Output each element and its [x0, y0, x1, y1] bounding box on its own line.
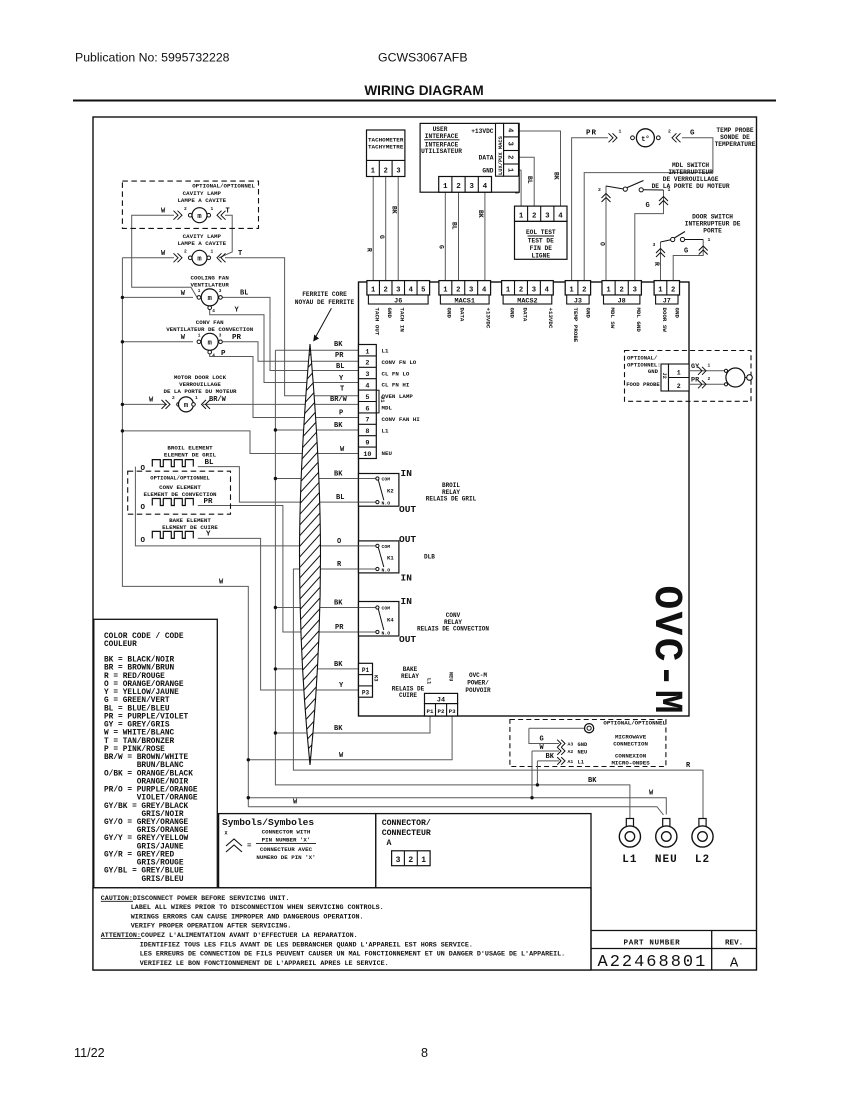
svg-text:BR/W: BR/W [209, 396, 227, 404]
relay K2 broil [359, 474, 399, 507]
svg-text:2: 2 [384, 168, 388, 176]
svg-text:4: 4 [558, 212, 563, 220]
svg-text:A3: A3 [568, 742, 574, 748]
svg-text:J7: J7 [663, 298, 671, 306]
svg-text:O = ORANGE/ORANGE: O = ORANGE/ORANGE [104, 681, 184, 689]
wire BK bus vertical [275, 350, 630, 818]
J1 bracket label [376, 390, 386, 413]
svg-text:DLB: DLB [424, 554, 435, 561]
wire broil element BL to relay K2 [198, 467, 376, 503]
svg-text:m: m [184, 402, 188, 410]
svg-text:K1: K1 [387, 554, 394, 561]
wire lamp1 T side to lamp2 [219, 215, 232, 258]
user interface bottom pins [439, 177, 492, 193]
svg-text:X: X [225, 831, 228, 837]
svg-text:1: 1 [708, 362, 711, 368]
svg-text:DATA: DATA [459, 308, 466, 322]
cooling fan motor [181, 289, 223, 314]
svg-text:3: 3 [505, 142, 513, 146]
wire W motor-door-lock tap [122, 403, 167, 405]
wire BK to K3 P1 [275, 668, 358, 670]
svg-text:L1: L1 [382, 348, 389, 355]
svg-text:GND: GND [482, 167, 493, 174]
svg-text:GY/O = GREY/ORANGE: GY/O = GREY/ORANGE [104, 819, 189, 827]
svg-text:3: 3 [469, 286, 473, 294]
svg-text:3: 3 [365, 371, 369, 379]
svg-text:G: G [540, 736, 544, 744]
svg-text:N.O: N.O [382, 568, 391, 574]
svg-text:P: P [339, 410, 343, 418]
svg-text:5: 5 [365, 394, 369, 402]
wire BK from J4 P1 [275, 716, 430, 733]
svg-text:MDL GND: MDL GND [635, 308, 642, 333]
svg-text:INTERRUPTEUR DE: INTERRUPTEUR DE [685, 221, 741, 228]
svg-text:P1: P1 [427, 708, 434, 715]
svg-text:DOOR SW: DOOR SW [661, 308, 668, 333]
wire BK to pin 8 [275, 429, 358, 431]
svg-text:3: 3 [396, 286, 400, 294]
svg-text:A2: A2 [568, 749, 574, 755]
svg-text:2: 2 [384, 286, 388, 294]
svg-text:GCWS3067AFB: GCWS3067AFB [378, 51, 468, 65]
cavity lamp 1 optional [161, 206, 226, 223]
svg-text:m: m [197, 213, 201, 221]
door switch label [685, 214, 741, 235]
svg-text:GND: GND [648, 368, 659, 375]
svg-text:CONV ELEMENT: CONV ELEMENT [159, 484, 201, 491]
svg-text:BK: BK [588, 777, 597, 785]
svg-text:ELEMENT DE GRIL: ELEMENT DE GRIL [164, 452, 217, 459]
svg-text:CAVITY LAMP: CAVITY LAMP [183, 190, 222, 197]
wire O bus for elements [135, 467, 376, 546]
svg-text:RELAY: RELAY [401, 673, 419, 680]
svg-text:1: 1 [506, 286, 511, 294]
symbols legend text [256, 829, 316, 862]
svg-text:BL: BL [526, 176, 533, 184]
svg-text:VENTILATEUR DE CONVECTION: VENTILATEUR DE CONVECTION [166, 326, 253, 333]
svg-text:1: 1 [371, 286, 376, 294]
svg-text:PR: PR [335, 352, 344, 360]
svg-text:P: P [221, 350, 226, 358]
svg-text:BL = BLUE/BLEU: BL = BLUE/BLEU [104, 705, 170, 713]
svg-text:4: 4 [365, 383, 369, 391]
wire W second run to NEU [248, 807, 663, 815]
svg-text:1: 1 [708, 237, 711, 243]
wire R from K1 N.O to L2 terminal [293, 569, 703, 819]
svg-text:2: 2 [708, 376, 711, 382]
svg-text:A22468801: A22468801 [598, 953, 708, 972]
MDL switch [598, 181, 671, 206]
svg-text:J3: J3 [574, 298, 582, 306]
svg-text:GY/BL = GREY/BLUE: GY/BL = GREY/BLUE [104, 868, 184, 876]
svg-text:K2: K2 [387, 487, 394, 494]
svg-text:COM: COM [382, 544, 391, 550]
color code title [104, 633, 184, 649]
svg-text:P3: P3 [362, 689, 370, 696]
svg-text:L1: L1 [622, 854, 637, 866]
connector A title [382, 818, 431, 848]
svg-text:O: O [141, 504, 146, 512]
cooling fan labels [191, 275, 230, 289]
OVC-M control board outline [359, 282, 690, 716]
svg-text:ELEMENT DE CONVECTION: ELEMENT DE CONVECTION [143, 491, 217, 498]
wire temp probe PR from J3 pin1 [572, 138, 608, 281]
svg-text:FERRITE CORE: FERRITE CORE [302, 291, 347, 298]
part number block [591, 888, 757, 972]
svg-text:O: O [599, 242, 606, 246]
svg-text:BK: BK [334, 422, 343, 430]
connector J1 pin column 1-10 [359, 345, 377, 459]
convection fan motor [181, 333, 223, 358]
microwave ground ring [529, 724, 594, 744]
svg-text:2: 2 [668, 129, 671, 135]
svg-text:POUVOIR: POUVOIR [465, 687, 491, 694]
svg-text:8: 8 [421, 1046, 428, 1060]
svg-text:G = GREEN/VERT: G = GREEN/VERT [104, 697, 170, 705]
svg-text:CONNECTEUR AVEC: CONNECTEUR AVEC [260, 846, 313, 853]
svg-text:SONDE DE: SONDE DE [720, 134, 750, 141]
svg-text:LIGNE: LIGNE [532, 253, 551, 260]
wire W from J4 P3 [248, 716, 452, 760]
svg-text:3: 3 [219, 334, 222, 339]
wire conv fan P to pin 7 [210, 351, 359, 418]
svg-text:BK: BK [334, 471, 343, 479]
svg-text:R: R [653, 262, 660, 266]
svg-text:BK: BK [391, 206, 398, 214]
svg-text:BL: BL [205, 459, 215, 467]
wire W to NEU terminal [248, 798, 666, 815]
wire door switch G return to J7 pin2 [673, 240, 703, 281]
svg-text:2: 2 [172, 395, 175, 401]
svg-text:T: T [226, 207, 230, 215]
svg-text:GRIS/ORANGE: GRIS/ORANGE [137, 827, 189, 835]
svg-text:TACHOMETER: TACHOMETER [368, 137, 404, 144]
connector J2 [626, 364, 689, 391]
wire conv fan PR to pin 2 [222, 342, 359, 361]
wire DATA to EOL pin2 [519, 157, 535, 206]
svg-text:BL: BL [240, 289, 248, 297]
svg-text:NOYAU DE FERRITE: NOYAU DE FERRITE [295, 299, 355, 306]
optional cavity lamp dashed box [122, 181, 258, 228]
svg-text:1: 1 [211, 206, 214, 212]
connector J7 [654, 281, 679, 306]
bake relay label [392, 666, 425, 699]
svg-text:NEU: NEU [578, 749, 588, 755]
svg-text:BL: BL [451, 222, 458, 230]
svg-text:BRUN/BLANC: BRUN/BLANC [137, 762, 184, 770]
svg-text:RELAIS DE GRIL: RELAIS DE GRIL [426, 496, 477, 503]
svg-text:L2: L2 [695, 854, 710, 866]
conv element [139, 499, 194, 513]
svg-text:TEMP PROBE: TEMP PROBE [716, 127, 753, 134]
svg-text:GND: GND [386, 308, 393, 319]
svg-text:A: A [387, 839, 392, 848]
svg-text:1: 1 [569, 286, 574, 294]
svg-text:IN: IN [401, 596, 413, 607]
svg-text:TEMPERATURE: TEMPERATURE [715, 141, 756, 148]
svg-text:G: G [690, 129, 695, 137]
wire tach BK to J6 pin3 [397, 177, 399, 281]
svg-text:6: 6 [365, 405, 369, 413]
svg-text:CUIRE: CUIRE [399, 692, 417, 699]
connector row pin function labels [374, 308, 681, 343]
svg-text:DE VERROUILLAGE: DE VERROUILLAGE [663, 176, 719, 183]
svg-text:CONNEXION: CONNEXION [615, 753, 647, 760]
svg-text:+13VDC: +13VDC [484, 308, 491, 329]
svg-text:CL FN LO: CL FN LO [382, 370, 410, 377]
connector A box [376, 814, 591, 888]
svg-text:OVC-M: OVC-M [469, 672, 487, 679]
svg-text:N.O: N.O [382, 631, 391, 637]
svg-text:WIRING DIAGRAM: WIRING DIAGRAM [364, 83, 483, 98]
svg-text:UTILISATEUR: UTILISATEUR [421, 148, 462, 155]
svg-text:3: 3 [653, 242, 656, 248]
svg-text:PORTE: PORTE [703, 228, 722, 235]
svg-text:EOL TEST: EOL TEST [526, 229, 556, 236]
svg-text:5: 5 [421, 286, 425, 294]
svg-text:G: G [438, 245, 445, 249]
svg-text:10: 10 [363, 451, 371, 459]
svg-text:IN: IN [401, 572, 413, 583]
wire bake element Y to K3 P3 [198, 538, 359, 690]
svg-text:3: 3 [469, 183, 474, 191]
svg-text:W = WHITE/BLANC: W = WHITE/BLANC [104, 730, 175, 738]
svg-text:GY = GREY/GRIS: GY = GREY/GRIS [104, 722, 170, 730]
bake element [139, 531, 194, 544]
svg-text:GND: GND [585, 308, 592, 319]
svg-text:R = RED/ROUGE: R = RED/ROUGE [104, 673, 165, 681]
svg-text:K4: K4 [387, 616, 394, 623]
svg-text:PR: PR [232, 334, 242, 342]
svg-text:NEU: NEU [448, 672, 454, 681]
svg-text:G: G [646, 202, 650, 210]
svg-text:BK: BK [553, 172, 560, 180]
svg-text:FOOD PROBE: FOOD PROBE [626, 381, 660, 388]
wire BK to K4 COM [275, 607, 376, 609]
svg-text:LES ERREURS DE CONNECTION DE F: LES ERREURS DE CONNECTION DE FILS PEUVEN… [140, 951, 565, 959]
svg-text:GRIS/BLEU: GRIS/BLEU [141, 876, 183, 884]
svg-text:FIN DE: FIN DE [530, 245, 553, 252]
svg-text:INTERRUPTEUR: INTERRUPTEUR [668, 169, 713, 176]
svg-text:NUMERO DE PIN 'X': NUMERO DE PIN 'X' [256, 854, 315, 861]
svg-text:2: 2 [365, 360, 369, 368]
optional food probe dashed box [625, 351, 752, 402]
svg-text:BROIL ELEMENT: BROIL ELEMENT [167, 445, 213, 452]
svg-text:3: 3 [396, 856, 401, 865]
svg-text:4: 4 [409, 286, 414, 294]
svg-text:PIN NUMBER 'X': PIN NUMBER 'X' [262, 837, 311, 844]
optional conv element dashed box [128, 471, 231, 514]
svg-text:1: 1 [211, 249, 214, 255]
title rule [73, 100, 776, 102]
symbols connector glyph [225, 831, 253, 853]
svg-text:BK: BK [334, 661, 343, 669]
svg-text:4: 4 [505, 128, 513, 132]
svg-text:+13VDC: +13VDC [547, 308, 554, 329]
svg-text:COULEUR: COULEUR [104, 641, 137, 649]
svg-text:BK: BK [546, 753, 555, 761]
svg-text:O: O [141, 465, 146, 473]
svg-text:ELEMENT DE CUIRE: ELEMENT DE CUIRE [162, 524, 218, 531]
color code entries [104, 657, 198, 884]
wire motor door lock BR/W to pin 6 [203, 403, 359, 405]
svg-text:GY/Y = GREY/YELLOW: GY/Y = GREY/YELLOW [104, 835, 189, 843]
cavity lamp 2 [161, 249, 226, 266]
wire door switch R from J7 pin1 [660, 242, 662, 281]
svg-text:R: R [366, 248, 373, 252]
svg-text:t°: t° [641, 135, 649, 144]
LUX/PUX MACS column [496, 123, 519, 176]
svg-text:m: m [208, 295, 212, 303]
user interface box [420, 123, 519, 192]
conv element labels [143, 475, 217, 499]
conv relay label [417, 612, 489, 633]
svg-text:MDL: MDL [382, 405, 393, 412]
svg-text:4: 4 [483, 183, 488, 191]
svg-text:2: 2 [505, 155, 513, 159]
svg-text:LAMPE A CAVITE: LAMPE A CAVITE [177, 197, 226, 204]
svg-text:P1: P1 [362, 667, 370, 674]
wire UI BL to MACS1 pin2 [458, 192, 460, 280]
connector J8 [602, 281, 641, 306]
svg-text:N.O: N.O [382, 501, 391, 507]
svg-text:1: 1 [198, 289, 201, 294]
connector MACS1 [439, 281, 491, 306]
svg-text:2: 2 [582, 286, 586, 294]
microwave connection label [611, 734, 650, 767]
svg-text:PR: PR [204, 498, 214, 506]
caution text [101, 895, 565, 968]
temp probe sensor [609, 129, 681, 147]
svg-text:8: 8 [365, 428, 369, 436]
svg-text:1: 1 [519, 212, 524, 220]
svg-text:CONNECTEUR: CONNECTEUR [382, 829, 431, 838]
svg-text:L1: L1 [578, 759, 584, 765]
wire tach G to J6 pin2 [385, 177, 387, 281]
svg-text:DATA: DATA [479, 154, 494, 161]
wire +13VDC to EOL pin4 [519, 131, 560, 206]
svg-text:L1: L1 [426, 678, 432, 684]
MDL switch label [652, 162, 730, 190]
svg-text:DE LA PORTE DU MOTEUR: DE LA PORTE DU MOTEUR [652, 183, 730, 190]
svg-text:IN: IN [401, 468, 413, 479]
svg-text:GND: GND [508, 308, 515, 319]
svg-text:POWER/: POWER/ [467, 680, 489, 687]
svg-text:Y: Y [206, 531, 211, 539]
svg-text:BK: BK [334, 725, 343, 733]
svg-text:OUT: OUT [399, 504, 416, 515]
svg-text:BK: BK [477, 210, 484, 218]
svg-text:OPTIONAL/OPTIONNEL: OPTIONAL/OPTIONNEL [192, 183, 255, 190]
svg-text:CONNECTION: CONNECTION [613, 741, 648, 748]
connector J4 [425, 693, 458, 716]
svg-text:2: 2 [456, 183, 461, 191]
svg-text:T: T [238, 250, 242, 258]
svg-text:3: 3 [633, 286, 637, 294]
svg-text:MACS1: MACS1 [455, 298, 475, 306]
svg-text:T = TAN/BRONZER: T = TAN/BRONZER [104, 738, 175, 746]
svg-text:BR/W = BROWN/WHITE: BR/W = BROWN/WHITE [104, 754, 189, 762]
svg-text:=: = [247, 843, 252, 851]
svg-text:BL: BL [336, 363, 344, 371]
svg-text:CAVITY LAMP: CAVITY LAMP [183, 233, 222, 240]
svg-text:PR = PURPLE/VIOLET: PR = PURPLE/VIOLET [104, 713, 189, 721]
svg-text:2: 2 [184, 206, 187, 212]
svg-text:Y = YELLOW/JAUNE: Y = YELLOW/JAUNE [104, 689, 179, 697]
svg-text:P3: P3 [449, 708, 456, 715]
svg-text:3: 3 [396, 168, 400, 176]
svg-text:3: 3 [219, 289, 222, 294]
J4 pin labels L1 NEU [426, 672, 454, 684]
svg-text:2: 2 [408, 856, 413, 865]
svg-text:LAMPE A CAVITE: LAMPE A CAVITE [177, 240, 226, 247]
svg-text:TACH OUT: TACH OUT [374, 308, 381, 336]
svg-text:OPTIONAL/OPTIONNEL: OPTIONAL/OPTIONNEL [603, 720, 666, 727]
temp probe label [715, 127, 756, 148]
optional microwave dashed box [510, 720, 666, 767]
svg-text:G: G [378, 235, 385, 239]
cavity lamp 2 labels [177, 233, 226, 247]
svg-text:3: 3 [545, 212, 550, 220]
svg-text:VENTILATEUR: VENTILATEUR [191, 282, 230, 289]
connector J3 [565, 281, 590, 306]
svg-text:2: 2 [671, 286, 675, 294]
svg-text:CONV FN LO: CONV FN LO [382, 359, 417, 366]
svg-text:11/22: 11/22 [74, 1046, 105, 1060]
svg-text:GND: GND [674, 308, 681, 319]
svg-text:OUT: OUT [399, 634, 416, 645]
svg-text:P = PINK/ROSE: P = PINK/ROSE [104, 746, 165, 754]
svg-text:4: 4 [545, 286, 550, 294]
wire MDL switch from J8 pin1 [605, 186, 607, 281]
wire lamp2 T to pin5 [225, 258, 359, 396]
relay K4 convection [359, 602, 399, 637]
terminal L1 [619, 819, 640, 867]
svg-text:CONV FAN: CONV FAN [196, 319, 224, 326]
svg-text:G: G [684, 247, 688, 255]
svg-text:O: O [337, 538, 341, 546]
wire GND to EOL pin1 [519, 170, 522, 206]
svg-text:2: 2 [456, 286, 460, 294]
broil element [139, 460, 194, 473]
wire cooling fan BL to pin 3 [222, 297, 359, 370]
svg-text:COLOR CODE / CODE: COLOR CODE / CODE [104, 633, 184, 641]
connector A cells [392, 851, 431, 866]
svg-text:1: 1 [365, 348, 369, 356]
wire cooling fan Y to pin 4 [210, 306, 359, 383]
svg-text:CL FN HI: CL FN HI [382, 382, 410, 389]
optional cavity lamp labels [177, 183, 255, 204]
svg-text:BL: BL [336, 494, 344, 502]
wire UI G to MACS1 pin1 [444, 192, 446, 280]
pin function labels 1-10 [382, 348, 421, 458]
svg-text:LABEL ALL WIRES PRIOR TO DISCO: LABEL ALL WIRES PRIOR TO DISCONNECTION W… [131, 904, 384, 912]
svg-text:Symbols/Symboles: Symbols/Symboles [222, 817, 314, 828]
caution box [93, 888, 591, 970]
microwave wire W A2 NEU [530, 744, 587, 800]
svg-text:OVC-M: OVC-M [644, 586, 689, 717]
connector MACS2 [502, 281, 554, 306]
svg-text:GND: GND [446, 308, 453, 319]
wire lamp1 W side [132, 215, 197, 297]
svg-text:9: 9 [365, 440, 369, 448]
svg-text:TACHYMETRE: TACHYMETRE [368, 144, 404, 151]
svg-text:BK: BK [334, 341, 343, 349]
broil relay label [426, 482, 477, 503]
wire W to OVC-M pin 10 NEU [122, 431, 358, 454]
motor door lock [149, 395, 210, 412]
svg-text:m: m [208, 340, 212, 348]
